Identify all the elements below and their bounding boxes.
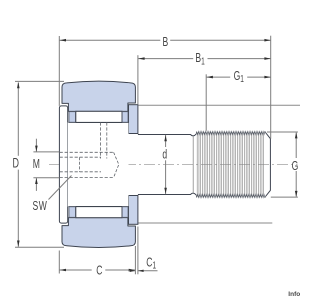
stud flange upper [129,105,138,134]
dimension D line lower [17,170,19,247]
cage section left top [69,112,75,123]
svg-text:C: C [96,264,102,278]
arrow C1 right outside [138,270,158,272]
dimension D top extension [15,80,64,82]
arrow G bottom [295,191,298,197]
stud end face with chamfers [266,133,271,197]
arrow G1 left [207,76,213,79]
svg-text:Infoq: Infoq [288,291,300,298]
centerline [49,164,298,166]
stud body (raceway region) [68,122,129,206]
thread flank hatching [197,134,264,195]
dimension B line [59,39,160,41]
arrow C right [129,269,135,272]
dimension C line [59,269,91,271]
arrow d bottom [164,188,167,194]
svg-text:G: G [292,160,299,174]
grid line lower (flange bottom extension) [137,222,272,224]
dimension G1 left extension [205,74,207,131]
dimension M upper extension [33,151,59,153]
arrow G1 right [264,76,270,79]
svg-text:D: D [13,157,19,171]
dimension d line [165,135,167,147]
cage section right top [122,112,128,123]
thread crest zigzag top [196,132,266,135]
cage section right bottom [122,207,128,218]
arrow D bottom [17,241,20,247]
dimension C1 extension flange face [137,227,139,275]
arrow B1 right [264,57,270,60]
SW leader line [49,176,72,200]
hex socket bottom dashed [79,157,81,172]
needle roller band top [76,111,122,122]
arrow B left [60,39,66,42]
dimension G top extension [267,131,298,133]
dimension B1 left extension [137,55,139,104]
dimension D line upper [17,83,19,156]
arrow G top [295,132,298,138]
arrow B right [264,39,270,42]
outer ring bottom section [62,218,135,248]
drill cone dashed [114,152,119,177]
dimension G line [295,133,297,158]
dimension C1 extension ring face [134,246,136,274]
arrow C left [60,269,66,272]
dimension D bottom extension [15,246,64,248]
hidden hex socket lower dashed [60,171,101,173]
arrow d top [164,135,167,141]
stud flange lower [129,196,138,225]
grid line upper (flange top extension to right edge) [138,104,300,106]
dimension G1 line [206,76,230,78]
dimension C left extension [58,251,60,274]
outer ring top section [62,81,135,111]
arrow C1 left outside [128,270,135,272]
vertical lube hole right dashed [106,122,108,158]
svg-text:d: d [162,148,167,162]
thread runout line [192,136,194,193]
dimension B left extension [58,36,60,106]
needle roller band bottom [76,207,122,218]
vertical lube hole left dashed [99,122,101,158]
hidden hex socket upper dashed [60,156,101,158]
arrow B1 left [138,57,144,60]
dimension G bottom extension [271,196,298,198]
cage section left bottom [69,207,75,218]
arrow D top [17,82,20,88]
hidden lube hole upper dashed [60,151,114,153]
thread crest zigzag bottom [196,194,266,197]
svg-text:SW: SW [33,199,48,213]
stud raceway bottom line [68,206,128,208]
svg-text:B: B [163,35,169,49]
dimension B1 line [138,58,193,60]
dimension M upper arrow [35,139,37,152]
svg-text:M: M [33,157,40,171]
dimension M lower arrow [35,178,37,191]
stud raceway top line [68,121,128,123]
side washer [59,106,67,223]
dimension B right extension [270,36,272,139]
stud shaft outline [138,134,196,136]
hidden lube hole lower dashed [60,177,114,179]
dimension M lower extension [33,177,59,179]
